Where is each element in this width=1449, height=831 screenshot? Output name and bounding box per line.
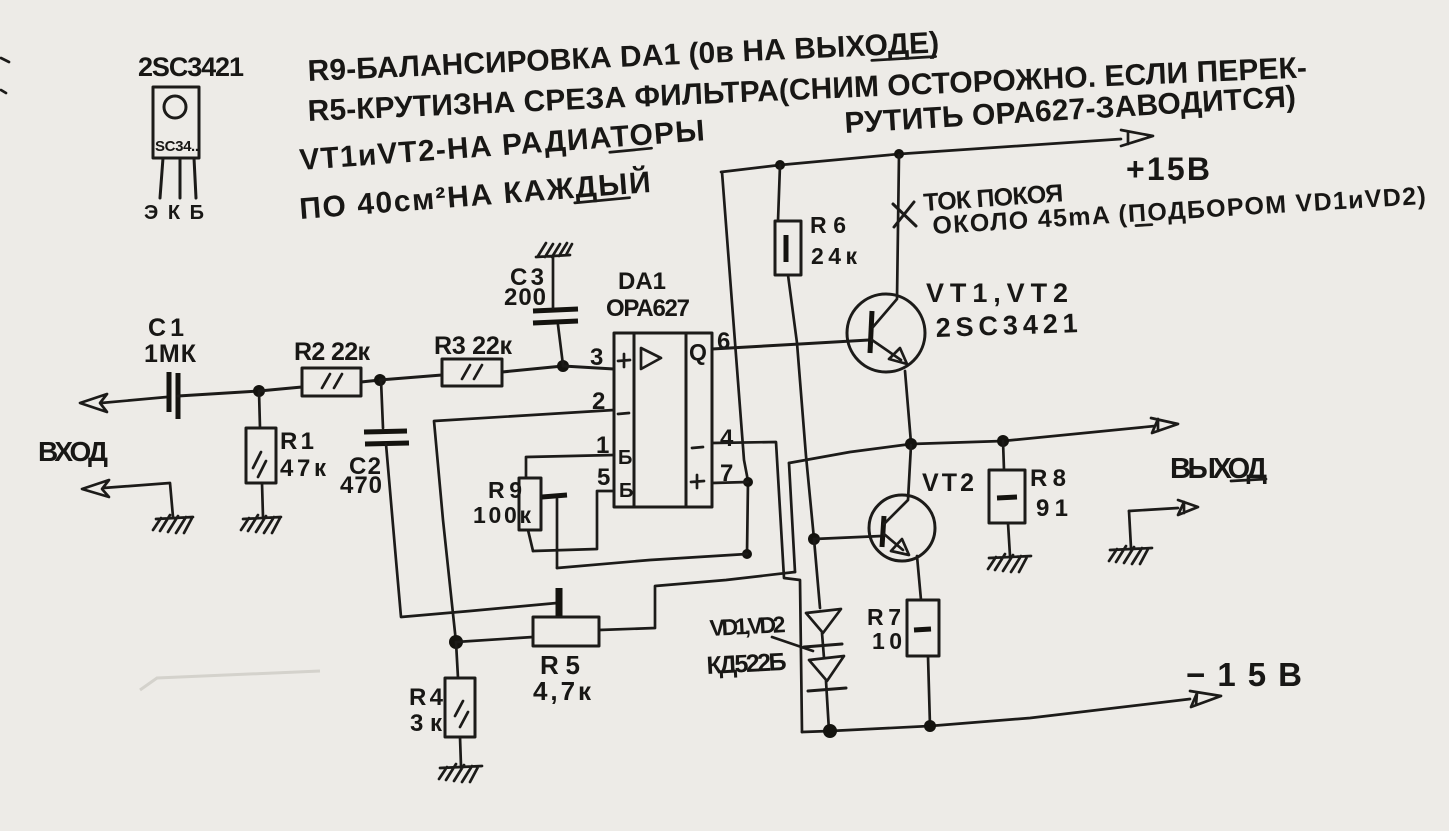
svg-text:+15В: +15В bbox=[1126, 151, 1210, 187]
junction VT2 base node bbox=[808, 533, 820, 545]
negative rail arrowhead bbox=[1190, 691, 1221, 707]
VT1 emitter line bbox=[872, 340, 911, 443]
wire R8 to ground bbox=[1008, 523, 1010, 556]
VT2 emitter line bbox=[884, 534, 921, 600]
wire R6 bottom to VT2 base node bbox=[788, 275, 814, 539]
junction output / R8 bbox=[997, 435, 1009, 447]
package leg 3 bbox=[194, 158, 196, 198]
wire input to C1 bbox=[101, 397, 167, 403]
edge scan mark bbox=[1, 58, 9, 93]
resistor R2 bbox=[302, 368, 361, 396]
note line 4: VT1 VT2 heatsinks bbox=[298, 114, 705, 177]
svg-text:2SC3421: 2SC3421 bbox=[935, 308, 1078, 343]
wire C2 to R5 wiper bbox=[386, 444, 557, 617]
transistor package outline bbox=[153, 87, 199, 158]
wire node D to R4 bbox=[456, 642, 458, 678]
wire R8 top lead bbox=[1003, 441, 1004, 470]
wire C3 to ground bbox=[552, 257, 555, 308]
potentiometer R5 bbox=[533, 617, 599, 646]
ground R1 bbox=[241, 515, 281, 533]
wire node A to R1 bbox=[259, 391, 260, 428]
output reference arrowhead bbox=[1178, 500, 1198, 515]
svg-text:Q: Q bbox=[689, 339, 707, 365]
svg-text:C1: C1 bbox=[148, 314, 184, 342]
op-amp pin7 plus mark bbox=[691, 475, 704, 488]
wire pin2 feedback bbox=[434, 410, 614, 642]
svg-text:3: 3 bbox=[590, 344, 603, 371]
output reference stub bbox=[1129, 511, 1131, 548]
R3 type marks bbox=[462, 365, 482, 379]
svg-text:200: 200 bbox=[504, 284, 546, 311]
wire pin6 to VT1 base bbox=[712, 340, 869, 349]
wire R2 to node B bbox=[361, 380, 380, 382]
ground C3 bbox=[536, 243, 572, 257]
R5 wiper bar bbox=[556, 588, 563, 616]
+15V arrowhead bbox=[1121, 130, 1153, 146]
svg-text:ЭКБ: ЭКБ bbox=[144, 202, 212, 224]
svg-text:5: 5 bbox=[597, 464, 610, 491]
resistor R8 bbox=[989, 470, 1025, 523]
wire node C to op-amp pin 3 bbox=[563, 366, 614, 369]
wire V+ rail to pin7 bbox=[722, 172, 748, 554]
junction V+ / R9 wiper wire bbox=[742, 549, 752, 559]
note line 5: 40 cm2 each bbox=[298, 165, 652, 226]
wire node B to C2 bbox=[381, 380, 383, 428]
output tap vertical bbox=[789, 463, 795, 572]
output rail wire bbox=[789, 426, 1155, 463]
R4 type marks bbox=[455, 701, 468, 727]
svg-text:2SC3421: 2SC3421 bbox=[138, 52, 244, 82]
R7 inner mark bbox=[914, 629, 931, 630]
transistor Q2 VT2 circle bbox=[869, 495, 935, 561]
package leg 2 bbox=[179, 158, 182, 198]
resistor R3 bbox=[442, 359, 502, 386]
svg-text:470: 470 bbox=[340, 472, 382, 499]
svg-text:R3 22к: R3 22к bbox=[434, 332, 512, 360]
junction +15 rail / VT1 collector bbox=[894, 149, 904, 159]
wire R6 top lead bbox=[778, 165, 780, 221]
op-amp inner left divider bbox=[633, 333, 636, 507]
svg-text:Б: Б bbox=[618, 447, 632, 469]
ground R4 bbox=[439, 764, 482, 782]
resistor R7 bbox=[907, 600, 939, 656]
svg-text:R4: R4 bbox=[409, 684, 444, 711]
wire R7 bottom lead bbox=[928, 656, 930, 726]
svg-text:SC34..: SC34.. bbox=[155, 138, 199, 155]
callout line VD label bbox=[772, 637, 813, 651]
note line 1: R9 balancing bbox=[307, 26, 940, 88]
op-amp pin4 minus mark bbox=[692, 447, 703, 448]
wire pin1 to R9 top bbox=[526, 455, 614, 478]
wire pin4 to negative rail bbox=[712, 442, 802, 732]
R1 type marks bbox=[253, 452, 266, 477]
wire VT2 base bbox=[814, 536, 882, 539]
wire input ground stub bbox=[103, 483, 173, 517]
wire node A to R2 bbox=[259, 387, 302, 391]
output reference arrow wire bbox=[1129, 508, 1178, 511]
svg-text:Б: Б bbox=[619, 480, 633, 502]
underline ВЫХОД bbox=[1231, 479, 1266, 481]
resistor R4 bbox=[445, 678, 475, 737]
VD1 cathode bar bbox=[804, 644, 842, 647]
svg-text:R2 22к: R2 22к bbox=[294, 338, 370, 366]
ground input bbox=[153, 515, 193, 533]
wire R4 to ground bbox=[460, 737, 461, 766]
junction output / VT1 emitter bbox=[905, 438, 917, 450]
svg-text:OPA627: OPA627 bbox=[606, 295, 690, 322]
ground output reference bbox=[1109, 546, 1152, 564]
VD2 cathode bar bbox=[808, 688, 846, 691]
svg-text:4,7к: 4,7к bbox=[533, 676, 592, 706]
VT1 base bar bbox=[870, 311, 872, 353]
node A junction bbox=[253, 385, 265, 397]
resistor R6 bbox=[775, 221, 801, 275]
wire R9 wiper to V+ node bbox=[557, 554, 747, 568]
VT1 emitter arrowhead bbox=[889, 348, 907, 364]
wire node D to R5 left bbox=[456, 637, 533, 642]
capacitor C1 bbox=[169, 372, 178, 419]
R9 bottom lead bbox=[528, 530, 533, 551]
output rail arrowhead bbox=[1151, 418, 1178, 433]
op-amp triangle symbol bbox=[641, 348, 661, 369]
svg-text:R1: R1 bbox=[280, 428, 314, 455]
svg-text:VT2: VT2 bbox=[922, 469, 974, 497]
R9 wiper bar bbox=[542, 495, 567, 497]
wire pin7 stub bbox=[712, 482, 748, 483]
R2 type marks bbox=[322, 374, 342, 388]
note line 3: continuation bbox=[844, 80, 1297, 140]
svg-text:6: 6 bbox=[717, 328, 730, 355]
faint pencil line bbox=[140, 671, 320, 690]
note line 2: R5 filter slope bbox=[307, 51, 1307, 128]
svg-text:КД522Б: КД522Б bbox=[706, 648, 787, 680]
input arrowhead upper bbox=[80, 394, 107, 412]
negative rail wire bbox=[802, 699, 1190, 732]
svg-text:24к: 24к bbox=[811, 243, 857, 269]
R6 inner mark bbox=[784, 235, 789, 262]
junction rail / R7 bbox=[924, 720, 936, 732]
note quiescent current line 1 bbox=[922, 179, 1064, 217]
R8 inner mark bbox=[997, 497, 1017, 498]
svg-text:ВХОД: ВХОД bbox=[38, 436, 108, 467]
diode column lower bbox=[826, 681, 829, 731]
wire pin5 to R9 bottom bbox=[533, 491, 614, 551]
node B junction bbox=[374, 374, 386, 386]
wire C3 stem bbox=[558, 325, 563, 365]
ground R8 bbox=[988, 554, 1031, 572]
op-amp pin2 minus mark bbox=[618, 413, 629, 414]
svg-text:4: 4 bbox=[720, 425, 734, 452]
wire C1 to node A bbox=[178, 391, 259, 396]
note quiescent current line 2 bbox=[932, 182, 1427, 240]
wire R1 to ground bbox=[262, 483, 263, 517]
potentiometer R9 bbox=[519, 478, 541, 530]
svg-text:1МК: 1МК bbox=[144, 340, 197, 368]
svg-text:DA1: DA1 bbox=[618, 268, 666, 295]
R9 wiper stem bbox=[556, 499, 559, 568]
wire R3 to node C bbox=[502, 366, 563, 372]
junction +15 rail / R6 bbox=[775, 160, 785, 170]
wire R5 right to output tap bbox=[599, 572, 795, 630]
VT2 collector line bbox=[884, 445, 911, 524]
wire node B to R3 bbox=[380, 375, 442, 380]
input arrowhead lower bbox=[82, 480, 109, 497]
op-amp U1 DA1 outline bbox=[614, 333, 712, 507]
junction pin7 bbox=[743, 477, 753, 487]
node C junction bbox=[557, 360, 569, 372]
capacitor C2 bbox=[364, 431, 409, 444]
resistor R1 bbox=[246, 428, 276, 483]
VT1 collector line bbox=[873, 155, 899, 327]
junction rail / diodes bbox=[823, 724, 837, 738]
svg-text:47к: 47к bbox=[280, 455, 327, 482]
X mark on collector line bbox=[893, 202, 916, 227]
+15V rail wire bbox=[721, 139, 1121, 172]
diode VD1 bbox=[806, 609, 841, 633]
VT2 base bar bbox=[882, 516, 884, 547]
node D junction pin2/R4/R5 bbox=[449, 635, 463, 649]
op-amp pin3 plus mark bbox=[618, 354, 630, 367]
package leg 1 bbox=[160, 158, 163, 198]
package mounting hole bbox=[164, 96, 186, 118]
op-amp inner right divider bbox=[685, 333, 688, 507]
diode column upper bbox=[814, 539, 820, 608]
diode VD1-VD2 link bbox=[822, 633, 824, 658]
diode VD2 bbox=[809, 656, 844, 681]
VT2 emitter arrowhead bbox=[891, 539, 909, 555]
capacitor C3 bbox=[533, 309, 578, 323]
transistor Q1 VT1 circle bbox=[847, 294, 925, 372]
